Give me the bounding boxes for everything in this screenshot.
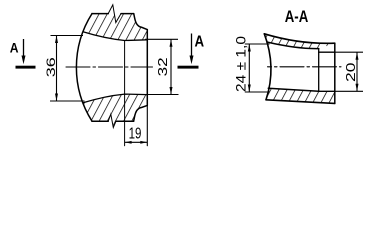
bottom bore line: [83, 94, 147, 103]
top outer edge: [264, 34, 335, 44]
arrows 24: [248, 44, 251, 52]
center line (axis): [66, 66, 153, 68]
cutting plane stroke: [16, 66, 36, 69]
top bore line: [83, 32, 147, 41]
bottom wall hatching: [266, 88, 335, 103]
svg-text:32: 32: [156, 57, 170, 76]
top wall hatching: [264, 34, 335, 49]
top inner cone edge: [267, 42, 319, 49]
ext lines: [51, 35, 84, 37]
svg-text:20: 20: [343, 62, 358, 82]
bottom outer line: [92, 120, 108, 122]
dim line: [56, 36, 58, 102]
arrows 20: [356, 52, 359, 60]
right end face: [334, 43, 336, 103]
top right step with fillets: [134, 14, 148, 30]
left curved face (arc): [76, 14, 92, 122]
top break zigzag: [108, 5, 121, 23]
bottom right step with fillets: [134, 105, 148, 121]
arrows 19: [125, 141, 132, 144]
svg-text:36: 36: [44, 57, 58, 77]
svg-text:A: A: [10, 40, 19, 56]
top outer line (right part): [121, 13, 134, 15]
left concave face arc: [264, 34, 271, 100]
bottom break zigzag: [108, 114, 116, 127]
top outer line: [92, 13, 108, 15]
bottom outer line (right part): [116, 120, 134, 122]
svg-text:19: 19: [129, 126, 142, 143]
bottom bore line: [319, 90, 335, 92]
section arrow: [23, 39, 25, 58]
svg-text:24 ± 1,0: 24 ± 1,0: [233, 36, 249, 92]
bottom outer edge: [266, 100, 335, 104]
top wall hatching: [83, 5, 147, 41]
svg-text:A-A: A-A: [285, 7, 309, 26]
center line: [268, 66, 342, 68]
right end face: [146, 30, 148, 106]
bore inner edge vertical / 19 extension line: [124, 41, 126, 146]
arrows 32: [170, 39, 173, 47]
inner bore end vertical: [318, 49, 320, 92]
top bore line: [319, 51, 335, 53]
bottom inner cone edge: [268, 88, 318, 91]
arrows 36: [55, 36, 58, 44]
bottom wall hatching: [83, 94, 147, 127]
svg-text:A: A: [195, 33, 205, 50]
right face extension line (for 19 dim): [146, 105, 148, 145]
